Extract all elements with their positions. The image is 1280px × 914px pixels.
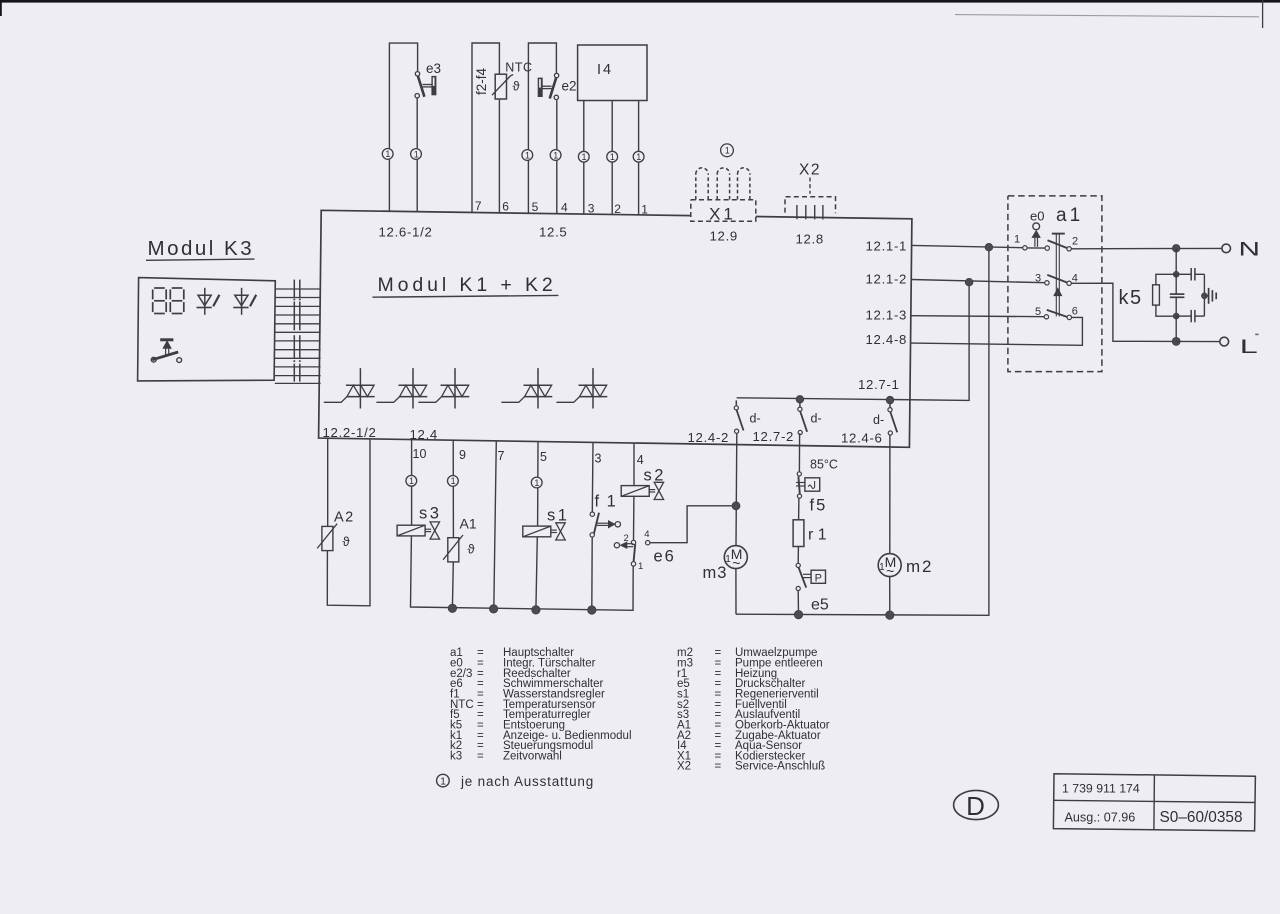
- pin number 6: [502, 199, 509, 213]
- svg-text:ϑ: ϑ: [513, 79, 521, 94]
- wire pin7: [494, 441, 497, 609]
- svg-text:1: 1: [581, 152, 586, 162]
- contact a1-4: [1067, 281, 1071, 285]
- relay contact d- (12.7-2): [798, 402, 822, 435]
- wire A1 to bus: [451, 562, 454, 608]
- junction: [1173, 313, 1179, 319]
- junction: [886, 396, 894, 404]
- junction: [1202, 293, 1208, 299]
- label 12.1-2: [866, 272, 908, 287]
- svg-text:a1: a1: [1056, 205, 1083, 226]
- triac 4: [501, 368, 552, 408]
- capacitor top right: [1176, 268, 1204, 281]
- module box K1+K2 outline: [319, 210, 912, 447]
- svg-text:P: P: [815, 572, 822, 584]
- relay contact d- (12.4-2): [734, 400, 760, 433]
- country mark D: [954, 790, 999, 821]
- pin number 3: [588, 201, 595, 215]
- svg-text:A1: A1: [460, 516, 477, 532]
- module box K3: [138, 278, 276, 381]
- label 12.6-1/2: [379, 224, 433, 239]
- svg-text:12.4-8: 12.4-8: [866, 332, 908, 347]
- svg-text:d-: d-: [873, 413, 884, 427]
- label 12.1-1: [866, 238, 908, 253]
- label Modul K1 + K2: [372, 274, 558, 297]
- label 12.4-2: [688, 430, 730, 445]
- option mark on wire: [578, 151, 589, 162]
- wire 12.7-2 to f5: [798, 433, 800, 472]
- svg-text:e2: e2: [562, 78, 577, 93]
- resistor branch k5: [1153, 274, 1177, 316]
- ribbon connector bars: [293, 280, 300, 382]
- svg-text:1: 1: [451, 476, 456, 486]
- svg-text:s2: s2: [644, 467, 666, 485]
- push actuator e0: [1032, 223, 1040, 247]
- wire a1-2 to N: [1071, 247, 1222, 249]
- wire 12.4-8: [911, 317, 1083, 345]
- junction: [489, 605, 497, 613]
- motor m2 (circulation pump): [878, 554, 901, 579]
- svg-text:Ausg.: 07.96: Ausg.: 07.96: [1065, 811, 1136, 825]
- label 12.7-2: [753, 429, 795, 444]
- svg-text:L: L: [1240, 336, 1258, 358]
- contact e0-b: [1045, 246, 1049, 250]
- wire pin4: [633, 443, 635, 485]
- svg-text:X2: X2: [677, 761, 691, 773]
- wire 12.4-6 to m2: [889, 435, 891, 554]
- wire loop e3 branch: [389, 43, 417, 211]
- svg-text:m3: m3: [703, 564, 728, 582]
- svg-text:6: 6: [502, 199, 509, 213]
- label 12.1-3: [866, 308, 908, 323]
- svg-text:A2: A2: [334, 509, 355, 525]
- triac 5: [556, 368, 607, 408]
- wire f1 to bus: [591, 537, 593, 610]
- wire m3 to bus: [735, 568, 737, 614]
- wire pin3: [591, 443, 594, 513]
- option mark on wire: [607, 151, 618, 162]
- thermostat f5: [796, 472, 820, 498]
- svg-text:Modul K1 + K2: Modul K1 + K2: [378, 274, 557, 296]
- svg-text:12.8: 12.8: [796, 231, 824, 246]
- contact a1-1: [1023, 246, 1027, 250]
- label e5: [811, 597, 829, 614]
- reed switch e3: [415, 72, 436, 98]
- svg-text:12.7-1: 12.7-1: [858, 377, 900, 392]
- display 88 (seven-segment): [153, 288, 184, 314]
- option mark on wire: [382, 149, 393, 160]
- wire k5 to L: [1175, 316, 1177, 341]
- label X1: [709, 204, 736, 223]
- label e2: [562, 78, 577, 93]
- svg-text:D: D: [966, 791, 985, 821]
- heater r1: [793, 520, 804, 547]
- label Modul K3: [146, 237, 255, 260]
- sensor box I4: [578, 45, 647, 101]
- speck: [1255, 334, 1258, 336]
- svg-text:=: =: [477, 750, 484, 762]
- junction: [886, 611, 894, 619]
- contact a1-6: [1067, 315, 1071, 319]
- svg-text:12.9: 12.9: [710, 228, 738, 243]
- bridge e0: [1027, 247, 1045, 249]
- switch blade a1 top: [1048, 240, 1069, 248]
- wire s3 to bus: [411, 536, 634, 610]
- svg-text:Zeitvorwahl: Zeitvorwahl: [503, 750, 562, 762]
- pin number 10: [413, 447, 427, 461]
- svg-text:3: 3: [1035, 273, 1041, 285]
- svg-text:1 739 911 174: 1 739 911 174: [1062, 782, 1140, 796]
- label 12.4-8: [866, 332, 908, 347]
- pin number 2: [614, 202, 621, 216]
- svg-text:s1: s1: [547, 507, 569, 525]
- svg-text:1: 1: [385, 149, 390, 159]
- wire s2 to e6: [633, 496, 635, 540]
- svg-text:5: 5: [1035, 306, 1041, 318]
- option mark X1: [721, 144, 734, 157]
- svg-text:12.2-1/2: 12.2-1/2: [323, 425, 377, 440]
- label N: [1239, 238, 1261, 260]
- wire 12.7-1 bus: [737, 282, 970, 400]
- svg-text:12.7-2: 12.7-2: [753, 429, 795, 444]
- actuator A2: [317, 524, 337, 551]
- LED indicator 2: [233, 288, 256, 315]
- svg-text:2: 2: [1072, 236, 1078, 248]
- label s3: [419, 505, 441, 523]
- wire e3 to module: [416, 98, 418, 212]
- valve s1: [523, 523, 565, 540]
- wire r1 to e5: [797, 547, 799, 564]
- label 12.8: [796, 231, 824, 246]
- svg-text:4: 4: [561, 200, 568, 214]
- svg-text:Service-Anschluß: Service-Anschluß: [735, 761, 825, 773]
- actuator A1: [443, 535, 463, 562]
- doc number: [1160, 809, 1243, 826]
- label 85 C: [810, 458, 838, 472]
- wire NTC to module: [498, 100, 500, 213]
- label pin 5: [1035, 306, 1041, 318]
- chassis ground: [1204, 288, 1216, 304]
- wire e5 to bus: [797, 591, 799, 615]
- svg-text:1: 1: [610, 152, 615, 162]
- pin number 9: [459, 448, 466, 462]
- svg-text:1: 1: [641, 202, 648, 216]
- svg-text:9: 9: [459, 448, 466, 462]
- svg-text:12.4-6: 12.4-6: [841, 430, 883, 445]
- coupling bar: [1052, 233, 1065, 235]
- svg-text:e3: e3: [426, 61, 441, 76]
- terminal L: [1220, 337, 1229, 346]
- wire 12.1-3: [911, 316, 1044, 317]
- option mark on wire: [633, 151, 644, 162]
- svg-text:10: 10: [413, 447, 427, 461]
- capacitor k5 mid: [1170, 274, 1185, 316]
- wire 12.4-2 to m3: [735, 433, 738, 546]
- svg-text:X1: X1: [709, 204, 736, 223]
- label m2: [906, 557, 933, 576]
- label L: [1240, 336, 1258, 358]
- wire I4 pin3: [583, 101, 585, 215]
- svg-text:3: 3: [595, 451, 602, 465]
- switch blade a1 mid: [1047, 275, 1068, 283]
- svg-text:f 1: f 1: [595, 493, 618, 511]
- coupling arrow: [1054, 288, 1062, 295]
- label m3: [703, 564, 728, 582]
- part number: [1062, 782, 1140, 796]
- label 12.5: [539, 225, 567, 240]
- svg-text:X2: X2: [799, 161, 821, 178]
- svg-text:12.1-1: 12.1-1: [866, 238, 908, 253]
- svg-text:12.1-2: 12.1-2: [866, 272, 908, 287]
- svg-text:1: 1: [1014, 234, 1020, 246]
- label r1: [808, 527, 827, 544]
- theta symbol: [468, 542, 476, 557]
- svg-text:1: 1: [409, 476, 414, 486]
- wire I4 pin1: [638, 101, 640, 216]
- wire pin5: [537, 442, 539, 526]
- svg-text:je nach Ausstattung: je nach Ausstattung: [460, 774, 594, 789]
- wire right branch: [1203, 274, 1205, 316]
- label NTC: [505, 60, 532, 74]
- svg-text:12.6-1/2: 12.6-1/2: [379, 224, 433, 239]
- triac 2: [376, 368, 427, 408]
- wire e2 to module: [556, 100, 558, 214]
- junction: [1172, 245, 1180, 253]
- contact a1-3: [1045, 281, 1049, 285]
- svg-text:1: 1: [414, 149, 419, 159]
- svg-text:N: N: [1239, 238, 1261, 260]
- label s2: [644, 467, 666, 485]
- junction: [965, 278, 973, 286]
- svg-text:12.4-2: 12.4-2: [688, 430, 730, 445]
- pressure switch e5: [796, 563, 825, 590]
- wire pin9: [452, 440, 454, 538]
- junction: [796, 396, 804, 404]
- wire N to k5: [1175, 248, 1177, 274]
- wire m2 to bus: [889, 576, 891, 615]
- svg-text:4: 4: [644, 529, 649, 540]
- wire 12.1-2: [912, 280, 1045, 283]
- svg-text:1: 1: [553, 150, 558, 160]
- option mark on wire: [522, 150, 533, 161]
- svg-text:m2: m2: [906, 557, 933, 576]
- label s1: [547, 507, 569, 525]
- option mark on wire: [411, 149, 422, 160]
- theta symbol: [513, 79, 521, 94]
- svg-text:ϑ: ϑ: [468, 542, 476, 557]
- label e3: [426, 61, 441, 76]
- valve s3: [397, 522, 439, 539]
- svg-text:f2-f4: f2-f4: [474, 68, 489, 96]
- svg-text:12.5: 12.5: [539, 225, 567, 240]
- pin number 4: [561, 200, 568, 214]
- contact a1-5: [1044, 315, 1048, 319]
- junction: [794, 610, 802, 618]
- svg-text:ϑ: ϑ: [343, 534, 351, 549]
- svg-text:S0–60/0358: S0–60/0358: [1160, 809, 1243, 826]
- junction: [1172, 337, 1180, 345]
- svg-text:k3: k3: [450, 750, 462, 762]
- svg-text:5: 5: [532, 200, 539, 214]
- label pin 2: [1072, 236, 1078, 248]
- svg-text:e0: e0: [1030, 209, 1044, 224]
- label 12.4: [410, 427, 438, 442]
- svg-text:d-: d-: [750, 412, 761, 426]
- label 12.9: [710, 228, 738, 243]
- footnote je nach Ausstattung: [437, 774, 594, 789]
- pin number 7: [498, 449, 505, 463]
- label e6: [654, 548, 676, 566]
- ribbon cable wires: [275, 289, 321, 383]
- push-button (Zeitvorwahl key): [151, 340, 181, 363]
- svg-text:k5: k5: [1119, 287, 1143, 309]
- svg-text:7: 7: [498, 449, 505, 463]
- wire a1-4 to L: [1071, 283, 1173, 341]
- svg-text:e5: e5: [811, 597, 829, 614]
- valve s2: [621, 482, 663, 499]
- reed switch e2: [538, 73, 559, 99]
- pin number 4: [637, 453, 644, 467]
- svg-text:s3: s3: [419, 505, 441, 523]
- wire L to terminal: [1176, 340, 1220, 342]
- wire loop f2-f4 branch: [472, 43, 499, 213]
- label f2-f4 (rotated): [474, 68, 489, 96]
- connector X2 pins: [797, 205, 823, 220]
- junction: [588, 606, 596, 614]
- option mark on wire: [406, 475, 417, 486]
- title block table: [1053, 774, 1255, 831]
- pin number 3: [595, 451, 602, 465]
- label 12.2-1/2: [323, 425, 377, 440]
- svg-text:1: 1: [879, 562, 885, 573]
- terminal N: [1222, 244, 1231, 253]
- level switch f1: [590, 512, 621, 537]
- label 12.4-6: [841, 430, 883, 445]
- pin number 5: [540, 450, 547, 464]
- label A1: [460, 516, 477, 532]
- capacitor bottom right: [1176, 310, 1204, 322]
- label 12.7-1: [858, 377, 900, 392]
- junction: [1173, 271, 1179, 277]
- float switch e6: [614, 529, 650, 572]
- option mark on wire: [531, 477, 542, 488]
- triac 1: [324, 368, 375, 408]
- svg-text:e6: e6: [654, 548, 676, 566]
- svg-text:=: =: [715, 761, 722, 773]
- contact a1-2: [1067, 247, 1071, 251]
- option mark on wire: [448, 476, 459, 487]
- label A2: [334, 509, 355, 525]
- pin number 5: [532, 200, 539, 214]
- svg-text:6: 6: [1072, 306, 1078, 318]
- wire s1 to bus: [536, 537, 537, 610]
- option mark on wire: [550, 150, 561, 161]
- pin number 1: [641, 202, 648, 216]
- label a1: [1056, 205, 1083, 226]
- svg-text:85°C: 85°C: [810, 458, 838, 472]
- wire A2 loop: [327, 439, 370, 606]
- svg-text:1: 1: [638, 561, 643, 572]
- issue date: [1065, 811, 1136, 825]
- svg-text:d-: d-: [811, 412, 822, 426]
- connector X1: [691, 200, 756, 222]
- svg-text:7: 7: [475, 199, 482, 213]
- svg-text:1: 1: [440, 776, 446, 788]
- label pin 3: [1035, 273, 1041, 285]
- wire pin10: [411, 440, 413, 526]
- dashed lead X2: [809, 178, 811, 194]
- wire drop 12.1-1 to pump bus: [736, 247, 989, 615]
- junction: [532, 606, 540, 614]
- theta symbol: [343, 534, 351, 549]
- wire 12.1-1: [912, 245, 1023, 247]
- svg-text:f5: f5: [810, 497, 828, 515]
- label pin 6: [1072, 306, 1078, 318]
- wire f5 to r1: [798, 498, 800, 520]
- motor m3 (drain pump): [724, 546, 747, 571]
- label pin 1: [1014, 234, 1020, 246]
- junction: [448, 604, 456, 612]
- relay contact d- (12.4-6): [873, 402, 897, 435]
- LED indicator 1: [197, 288, 220, 315]
- svg-text:1: 1: [725, 146, 730, 156]
- label pin 4: [1072, 273, 1078, 285]
- svg-text:4: 4: [637, 453, 644, 467]
- junction: [732, 502, 740, 510]
- switch block a1 (dashed): [1008, 196, 1102, 372]
- svg-text:I4: I4: [597, 62, 613, 78]
- triac 3: [418, 368, 469, 408]
- wire I4 pin2: [611, 101, 613, 215]
- label e0: [1030, 209, 1044, 224]
- svg-text:1: 1: [636, 152, 641, 162]
- svg-text:12.4: 12.4: [410, 427, 438, 442]
- switch blade a1 bottom: [1047, 310, 1068, 317]
- pin number 7: [475, 199, 482, 213]
- svg-text:Modul K3: Modul K3: [148, 237, 255, 260]
- svg-text:1: 1: [525, 150, 530, 160]
- wire loop e2 branch: [528, 43, 556, 213]
- label k5: [1119, 287, 1143, 309]
- junction: [985, 243, 993, 251]
- legend table: [450, 647, 830, 773]
- svg-text:2: 2: [614, 202, 621, 216]
- svg-text:r 1: r 1: [808, 527, 827, 544]
- label f5: [810, 497, 828, 515]
- svg-text:3: 3: [588, 201, 595, 215]
- connector X2 outline: [785, 197, 836, 213]
- wire A2 branch: [327, 438, 329, 526]
- thermistor NTC: [492, 74, 513, 99]
- svg-text:1: 1: [534, 478, 539, 488]
- svg-text:5: 5: [540, 450, 547, 464]
- coding jumpers on X1: [696, 168, 750, 200]
- label f1: [595, 493, 618, 511]
- svg-text:12.1-3: 12.1-3: [866, 308, 908, 323]
- label I4: [597, 62, 613, 78]
- coupling link: [1056, 234, 1059, 317]
- label X2: [799, 161, 821, 178]
- wire e6 to m3 node: [650, 506, 736, 543]
